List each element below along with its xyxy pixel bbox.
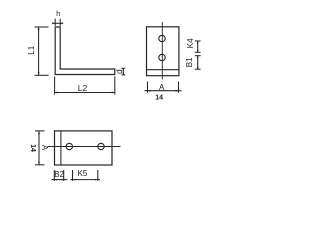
dimension A (below front view) (145, 82, 182, 93)
dimension L1 (left) (35, 27, 49, 75)
svg-text:K4: K4 (186, 38, 195, 48)
svg-text:B2: B2 (54, 170, 64, 179)
L-profile side view outline (55, 27, 115, 75)
dimension K4 (right of front view) (195, 41, 201, 52)
svg-text:14: 14 (155, 95, 163, 102)
front view plate (147, 27, 179, 76)
label B2 (54, 170, 64, 179)
svg-text:14: 14 (29, 144, 36, 152)
label L1 (27, 45, 36, 54)
centerline (front view) (161, 22, 163, 80)
value 14 (left of top view) (29, 144, 36, 152)
dimension B2 (below top view) (52, 170, 68, 181)
svg-text:h: h (56, 9, 60, 18)
hole lower (front view) (159, 54, 165, 60)
dimension B1 (right of front view) (195, 56, 201, 69)
label K4 (186, 38, 195, 48)
svg-text:A: A (159, 83, 165, 92)
top view plate (55, 131, 113, 165)
hole left (top view) (66, 143, 72, 149)
label K5 (78, 169, 88, 178)
svg-text:B1: B1 (185, 57, 194, 67)
label A (top view) (40, 145, 49, 151)
dimension L2 (bottom) (55, 77, 115, 95)
label d (114, 69, 124, 74)
label L2 (78, 83, 88, 93)
hole upper (front view) (159, 35, 165, 41)
dimension h (leg thickness, top) (52, 19, 63, 26)
value 14 (front view) (155, 95, 163, 102)
dimension d (horizontal leg thickness, right end) (122, 68, 126, 75)
svg-text:L1: L1 (27, 45, 36, 54)
svg-text:L2: L2 (78, 83, 88, 93)
centerline (top view) (48, 146, 121, 148)
label h (56, 9, 60, 18)
hole right (top view) (98, 143, 104, 149)
svg-text:K5: K5 (78, 169, 88, 178)
bend line (top view) (60, 131, 62, 165)
dimension K5 (below top view) (70, 170, 100, 181)
label A (front view) (159, 83, 165, 92)
bend line (front view) (147, 69, 179, 71)
dimension A (left of top view) (35, 131, 45, 165)
svg-text:A: A (40, 145, 49, 151)
label B1 (185, 57, 194, 67)
svg-text:d: d (114, 69, 124, 74)
